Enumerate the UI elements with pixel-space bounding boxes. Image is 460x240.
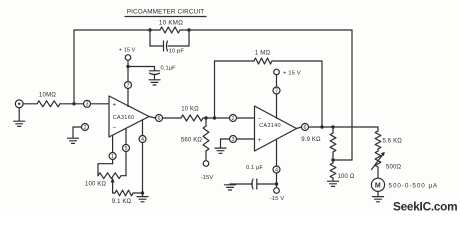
capacitor C1 10 pF (150, 30, 189, 55)
wire pin2 stub (73, 127, 82, 138)
pin 7 of U2 (273, 87, 280, 94)
pin 3 of U1 (84, 100, 91, 107)
resistor R2 10 MΩ (37, 93, 60, 107)
svg-text:M: M (375, 182, 381, 189)
meter M1 (371, 178, 438, 191)
wire U2 apex to pin6 (297, 127, 302, 129)
svg-text:10 KΩ: 10 KΩ (181, 107, 199, 113)
node 560K junction (204, 116, 207, 119)
pin 4 of U2 (273, 166, 280, 173)
wire meter to ground (377, 191, 379, 196)
wire feedback left vertical (73, 30, 75, 104)
resistor R5 10 KΩ (163, 107, 230, 122)
wire bypass branch (128, 67, 155, 71)
wire +15V to pin7 (127, 60, 129, 81)
svg-text:0.1 µF: 0.1 µF (246, 165, 263, 171)
ground input (14, 108, 25, 127)
node divider tap junction (331, 158, 334, 161)
wire pin3 to op-amp (91, 103, 110, 105)
pin 6 of U1 (156, 115, 163, 122)
ground offset network (137, 193, 148, 202)
power terminal +15V U1 (119, 48, 136, 61)
op-amp U2 CA3140 (255, 106, 297, 151)
resistor R10 5.6 KΩ (375, 127, 402, 151)
pin 2 of U1 (82, 124, 89, 131)
wire pot to pin5 (125, 152, 127, 176)
svg-text:10 KMΩ: 10 KMΩ (159, 20, 183, 27)
node output 9.9K junction (331, 125, 334, 128)
svg-text:100 KΩ: 100 KΩ (85, 181, 106, 187)
wire pin3 ground stub (221, 139, 230, 148)
svg-text:500-0-500 µA: 500-0-500 µA (389, 182, 439, 189)
ground meter (373, 197, 384, 202)
svg-text:500Ω: 500Ω (386, 165, 401, 171)
node pin4 U2 junction (275, 182, 278, 185)
node feedback junction (213, 116, 216, 119)
wire pin4 to op-amp (142, 120, 144, 136)
resistor R6 560 KΩ (181, 118, 209, 161)
pin 3 of U2 (230, 136, 237, 143)
pin 1 of U1 (109, 153, 116, 160)
wire feedback right vertical (351, 30, 353, 160)
wire output (309, 126, 379, 128)
svg-text:CA3140: CA3140 (259, 123, 281, 129)
wire feedback top right (189, 29, 352, 31)
svg-text:3: 3 (86, 102, 89, 108)
wire pin4 down (142, 143, 144, 194)
svg-text:−: − (112, 125, 116, 132)
svg-text:0.1µF: 0.1µF (161, 65, 177, 71)
wire 1MΩ top right (272, 60, 322, 62)
wire pin3 U2 to op-amp (237, 138, 255, 140)
svg-text:10 pF: 10 pF (169, 49, 185, 55)
wire rheostat to meter (377, 167, 379, 178)
resistor R8 9.9 KΩ (301, 127, 336, 160)
wire pin1 to op-amp (112, 135, 114, 152)
svg-text:-15 V: -15 V (270, 196, 285, 202)
wire 10MΩ to pin3 (60, 103, 84, 105)
wire pin4 U2 down (276, 173, 278, 188)
pot wiper arrow (111, 178, 115, 194)
potentiometer R3 100 KΩ (85, 173, 126, 188)
power terminal +15V U2 (274, 69, 301, 76)
pin 7 of U1 (125, 82, 132, 89)
wire pin6 U1 from apex (149, 117, 156, 119)
ground pin3 U2 (215, 148, 226, 153)
svg-text:2: 2 (232, 116, 235, 122)
node feedback-resistor left junction (148, 28, 151, 31)
wire pin5 to op-amp (125, 128, 127, 144)
wire pin2 U2 to op-amp (237, 117, 255, 119)
svg-text:−: − (257, 116, 261, 123)
pin 4 of U1 (139, 136, 146, 143)
input terminal J1 (15, 100, 37, 108)
wire pin1 to pot (98, 160, 113, 176)
svg-text:6: 6 (158, 116, 161, 122)
svg-text:2: 2 (84, 125, 87, 131)
svg-text:+ 15 V: + 15 V (283, 70, 301, 76)
capacitor C2 0.1 µF (150, 65, 177, 79)
svg-text:3: 3 (232, 137, 235, 143)
svg-text:CA3160: CA3160 (113, 115, 135, 121)
capacitor C3 0.1 µF (230, 165, 263, 189)
wire 1MΩ left vertical (214, 61, 216, 118)
svg-text:+ 15 V: + 15 V (119, 48, 136, 54)
wire feedback top left (74, 29, 150, 31)
resistor R7 1 MΩ (254, 51, 272, 65)
svg-text:PICOAMMETER CIRCUIT: PICOAMMETER CIRCUIT (127, 9, 205, 16)
svg-text:5.6 KΩ: 5.6 KΩ (383, 139, 403, 145)
svg-text:SeekIC.com: SeekIC.com (393, 200, 457, 214)
power terminal -15V R6 (201, 161, 214, 181)
wire +15V to pin7 U2 (276, 75, 278, 87)
svg-text:9.1 KΩ: 9.1 KΩ (112, 199, 132, 205)
ground bypass C2 (149, 80, 160, 85)
node output 1MΩ junction (320, 125, 323, 128)
svg-text:1 MΩ: 1 MΩ (255, 51, 271, 57)
op-amp U1 CA3160 (109, 96, 149, 137)
rheostat R11 500 Ω (372, 151, 402, 171)
node input junction (72, 102, 75, 105)
svg-text:100 Ω: 100 Ω (338, 174, 355, 180)
node feedback-resistor right junction (187, 28, 190, 31)
pin 6 of U2 (302, 124, 309, 131)
svg-text:+: + (112, 102, 116, 109)
wire 1MΩ top left (215, 60, 255, 62)
wire bypass branch U2 (257, 183, 277, 185)
svg-text:-15V: -15V (201, 175, 214, 181)
wire feedback bottom stub (333, 159, 352, 161)
ground 100Ω (328, 181, 339, 186)
node pin4 ground junction (141, 191, 144, 194)
wire pin4 U2 from op-amp (276, 139, 278, 166)
wire pin7 U2 to op-amp (276, 94, 278, 118)
resistor R4 9.1 KΩ (112, 190, 143, 205)
ground pin2 (68, 138, 79, 143)
resistor R1 10 KMΩ (150, 20, 189, 34)
svg-text:+: + (257, 137, 261, 144)
pin 5 of U1 (123, 145, 130, 152)
svg-text:10MΩ: 10MΩ (39, 93, 57, 99)
wire 1MΩ right vertical (321, 61, 323, 127)
power terminal -15V U2 (270, 188, 285, 202)
svg-text:9.9 KΩ: 9.9 KΩ (301, 137, 321, 143)
svg-text:6: 6 (304, 125, 307, 131)
node pin7 bypass junction (126, 65, 129, 68)
pin 2 of U2 (230, 115, 237, 122)
resistor R9 100 Ω (330, 160, 355, 181)
ground bypass C3 (225, 185, 236, 190)
title PICOAMMETER CIRCUIT (125, 9, 206, 17)
svg-text:560 KΩ: 560 KΩ (181, 138, 202, 144)
wire pin7 to op-amp (127, 89, 129, 107)
